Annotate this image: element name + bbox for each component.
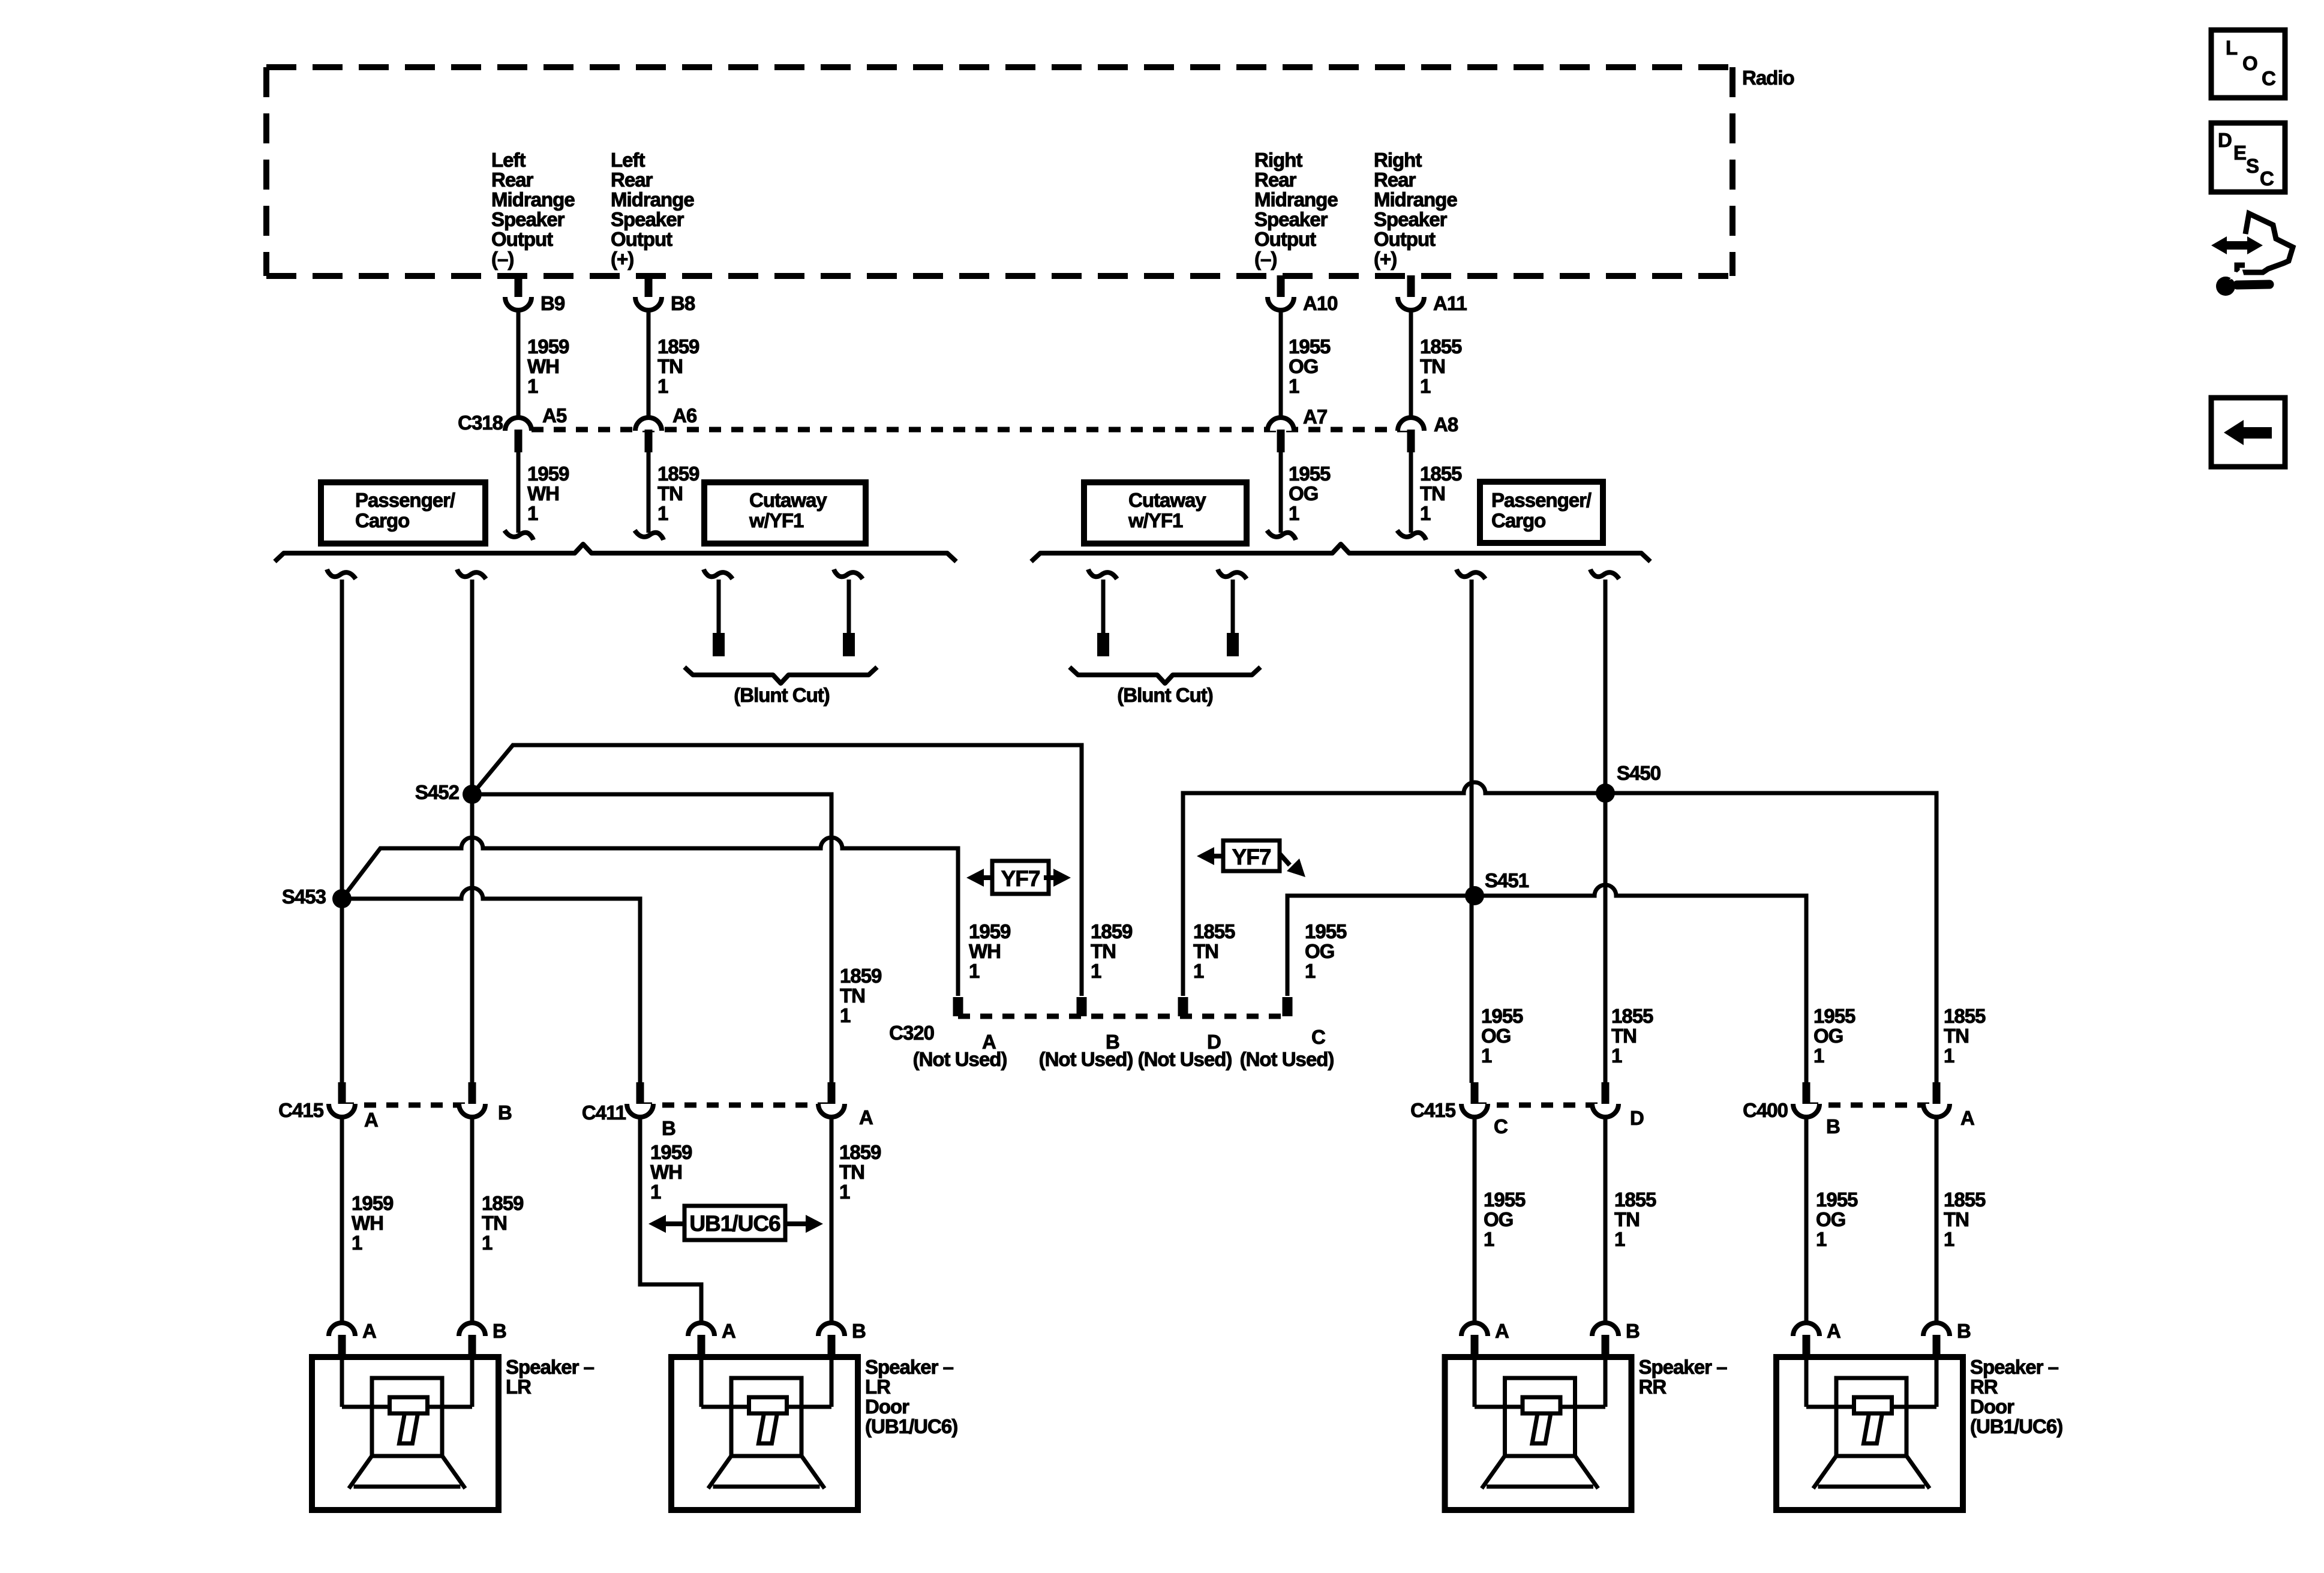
svg-text:L: L — [2226, 37, 2238, 59]
svg-text:TN: TN — [1420, 482, 1445, 505]
svg-text:RR: RR — [1970, 1376, 1998, 1398]
svg-text:B: B — [1626, 1320, 1640, 1342]
svg-text:LR: LR — [506, 1376, 532, 1398]
svg-text:Speaker –: Speaker – — [1970, 1356, 2059, 1378]
svg-text:1855: 1855 — [1944, 1188, 1986, 1211]
svg-text:A: A — [722, 1320, 735, 1342]
svg-text:Speaker: Speaker — [1254, 208, 1328, 230]
svg-text:TN: TN — [1944, 1208, 1969, 1230]
svg-text:A: A — [364, 1109, 378, 1131]
svg-text:1: 1 — [969, 960, 980, 982]
svg-text:(Blunt Cut): (Blunt Cut) — [1117, 684, 1212, 706]
svg-text:1955: 1955 — [1305, 920, 1347, 942]
svg-text:WH: WH — [969, 940, 1001, 962]
svg-text:A5: A5 — [542, 404, 567, 427]
svg-text:C415: C415 — [278, 1099, 324, 1121]
svg-text:1: 1 — [527, 502, 538, 524]
svg-text:1: 1 — [1944, 1044, 1954, 1067]
svg-text:A11: A11 — [1433, 292, 1467, 314]
svg-text:B: B — [662, 1117, 675, 1139]
svg-text:1859: 1859 — [657, 335, 699, 358]
svg-text:1859: 1859 — [1091, 920, 1133, 942]
svg-text:(Not Used): (Not Used) — [913, 1048, 1007, 1070]
svg-text:YF7: YF7 — [1001, 866, 1040, 891]
svg-text:(Blunt Cut): (Blunt Cut) — [734, 684, 829, 706]
svg-text:Speaker: Speaker — [611, 208, 684, 230]
svg-text:D: D — [1630, 1107, 1644, 1129]
svg-text:1955: 1955 — [1481, 1005, 1523, 1027]
svg-text:Output: Output — [1254, 228, 1316, 250]
svg-text:WH: WH — [527, 482, 559, 505]
svg-text:OG: OG — [1289, 355, 1318, 377]
svg-text:OG: OG — [1816, 1208, 1845, 1230]
svg-text:A: A — [859, 1106, 873, 1128]
svg-text:1859: 1859 — [657, 463, 699, 485]
svg-text:Midrange: Midrange — [491, 188, 575, 211]
svg-text:Right: Right — [1254, 149, 1302, 171]
svg-text:D: D — [2218, 129, 2232, 151]
svg-text:1955: 1955 — [1289, 463, 1331, 485]
svg-text:OG: OG — [1481, 1025, 1511, 1047]
svg-text:S450: S450 — [1617, 762, 1661, 784]
svg-text:C: C — [1494, 1115, 1508, 1137]
svg-text:1955: 1955 — [1816, 1188, 1858, 1211]
svg-text:Rear: Rear — [1374, 169, 1416, 191]
svg-text:w/YF1: w/YF1 — [1128, 509, 1183, 532]
svg-text:Output: Output — [491, 228, 553, 250]
svg-text:(+): (+) — [611, 248, 633, 270]
svg-text:TN: TN — [657, 355, 683, 377]
svg-text:Radio: Radio — [1742, 67, 1794, 89]
svg-text:TN: TN — [839, 1161, 864, 1183]
svg-text:C: C — [1311, 1026, 1325, 1048]
svg-text:S: S — [2246, 155, 2259, 177]
svg-text:1: 1 — [840, 1004, 851, 1026]
svg-text:Passenger/: Passenger/ — [1491, 489, 1592, 511]
svg-text:A7: A7 — [1303, 406, 1327, 428]
svg-text:(–): (–) — [1254, 248, 1277, 270]
svg-text:1859: 1859 — [839, 1141, 881, 1163]
svg-text:A8: A8 — [1434, 413, 1458, 436]
svg-text:B: B — [1826, 1115, 1840, 1137]
svg-text:WH: WH — [352, 1212, 383, 1234]
svg-text:Left: Left — [491, 149, 526, 171]
svg-text:(–): (–) — [491, 248, 514, 270]
svg-text:TN: TN — [840, 984, 865, 1007]
svg-text:OG: OG — [1813, 1025, 1843, 1047]
svg-text:1855: 1855 — [1944, 1005, 1986, 1027]
svg-text:TN: TN — [482, 1212, 507, 1234]
svg-text:Speaker –: Speaker – — [1639, 1356, 1728, 1378]
svg-text:WH: WH — [527, 355, 559, 377]
svg-text:1: 1 — [1481, 1044, 1492, 1067]
svg-text:1: 1 — [1193, 960, 1204, 982]
svg-text:A10: A10 — [1303, 292, 1338, 314]
svg-text:Speaker –: Speaker – — [865, 1356, 954, 1378]
svg-text:Output: Output — [611, 228, 672, 250]
svg-text:(UB1/UC6): (UB1/UC6) — [1970, 1415, 2062, 1437]
svg-text:1: 1 — [1816, 1228, 1827, 1250]
svg-text:YF7: YF7 — [1232, 845, 1271, 869]
svg-text:TN: TN — [1614, 1208, 1640, 1230]
svg-text:B: B — [493, 1320, 506, 1342]
svg-text:1955: 1955 — [1484, 1188, 1526, 1211]
svg-text:1855: 1855 — [1420, 463, 1462, 485]
svg-text:B: B — [852, 1320, 866, 1342]
svg-text:1959: 1959 — [352, 1192, 394, 1214]
svg-text:1855: 1855 — [1420, 335, 1462, 358]
svg-text:Cargo: Cargo — [355, 509, 409, 532]
svg-text:Midrange: Midrange — [1254, 188, 1338, 211]
svg-text:1959: 1959 — [527, 335, 569, 358]
svg-text:1: 1 — [527, 375, 538, 397]
svg-text:A: A — [362, 1320, 376, 1342]
svg-text:B9: B9 — [541, 292, 565, 314]
svg-text:1959: 1959 — [650, 1141, 692, 1163]
svg-text:1: 1 — [657, 375, 668, 397]
svg-text:1: 1 — [1420, 375, 1431, 397]
svg-text:1855: 1855 — [1611, 1005, 1653, 1027]
svg-text:WH: WH — [650, 1161, 682, 1183]
svg-text:1: 1 — [1305, 960, 1316, 982]
svg-text:1855: 1855 — [1193, 920, 1235, 942]
svg-text:A: A — [1495, 1320, 1509, 1342]
svg-text:TN: TN — [1420, 355, 1445, 377]
svg-text:Speaker: Speaker — [1374, 208, 1448, 230]
svg-text:O: O — [2242, 52, 2257, 74]
svg-text:1: 1 — [839, 1181, 850, 1203]
svg-text:OG: OG — [1484, 1208, 1513, 1230]
svg-text:Cutaway: Cutaway — [749, 489, 827, 511]
svg-text:1959: 1959 — [527, 463, 569, 485]
svg-text:Midrange: Midrange — [1374, 188, 1457, 211]
svg-text:TN: TN — [1091, 940, 1116, 962]
svg-text:1: 1 — [352, 1232, 362, 1254]
svg-text:1: 1 — [1289, 375, 1299, 397]
svg-text:B: B — [498, 1101, 512, 1124]
svg-text:E: E — [2233, 142, 2246, 164]
svg-text:1: 1 — [1614, 1228, 1625, 1250]
svg-text:TN: TN — [1944, 1025, 1969, 1047]
svg-text:B8: B8 — [671, 292, 695, 314]
svg-text:A6: A6 — [672, 404, 697, 427]
svg-text:1: 1 — [1420, 502, 1431, 524]
svg-text:(Not Used): (Not Used) — [1138, 1048, 1232, 1070]
svg-text:C: C — [2262, 67, 2275, 89]
svg-text:Midrange: Midrange — [611, 188, 694, 211]
svg-text:1955: 1955 — [1813, 1005, 1855, 1027]
svg-text:Speaker: Speaker — [491, 208, 565, 230]
svg-text:C411: C411 — [582, 1101, 626, 1124]
svg-text:w/YF1: w/YF1 — [749, 509, 804, 532]
svg-text:UB1/UC6: UB1/UC6 — [689, 1211, 780, 1236]
svg-text:C400: C400 — [1743, 1099, 1788, 1121]
svg-text:(Not Used): (Not Used) — [1039, 1048, 1133, 1070]
svg-text:Door: Door — [865, 1395, 909, 1418]
svg-text:1859: 1859 — [840, 965, 882, 987]
svg-text:Door: Door — [1970, 1395, 2014, 1418]
svg-text:C415: C415 — [1410, 1099, 1456, 1121]
svg-text:OG: OG — [1305, 940, 1334, 962]
svg-text:S452: S452 — [415, 781, 460, 803]
svg-text:LR: LR — [865, 1376, 891, 1398]
svg-text:1959: 1959 — [969, 920, 1011, 942]
svg-text:1: 1 — [657, 502, 668, 524]
svg-text:Left: Left — [611, 149, 645, 171]
svg-text:C: C — [2260, 167, 2274, 190]
svg-text:1: 1 — [1484, 1228, 1494, 1250]
svg-text:S451: S451 — [1485, 869, 1529, 891]
svg-text:Output: Output — [1374, 228, 1436, 250]
svg-text:C320: C320 — [889, 1022, 934, 1044]
svg-text:RR: RR — [1639, 1376, 1667, 1398]
svg-text:1: 1 — [650, 1181, 661, 1203]
svg-text:1: 1 — [1289, 502, 1299, 524]
svg-text:S453: S453 — [282, 885, 326, 908]
svg-text:1855: 1855 — [1614, 1188, 1656, 1211]
svg-text:Passenger/: Passenger/ — [355, 489, 455, 511]
svg-text:1: 1 — [482, 1232, 493, 1254]
svg-text:1: 1 — [1091, 960, 1101, 982]
svg-text:OG: OG — [1289, 482, 1318, 505]
svg-text:Cargo: Cargo — [1491, 509, 1545, 532]
svg-text:A: A — [1960, 1107, 1974, 1129]
svg-text:(UB1/UC6): (UB1/UC6) — [865, 1415, 957, 1437]
svg-text:Rear: Rear — [611, 169, 653, 191]
svg-text:(+): (+) — [1374, 248, 1397, 270]
svg-text:C318: C318 — [458, 412, 503, 434]
svg-text:Right: Right — [1374, 149, 1422, 171]
svg-text:Rear: Rear — [1254, 169, 1297, 191]
svg-text:Speaker –: Speaker – — [506, 1356, 594, 1378]
svg-text:1: 1 — [1611, 1044, 1622, 1067]
svg-text:1955: 1955 — [1289, 335, 1331, 358]
svg-text:A: A — [1827, 1320, 1840, 1342]
svg-text:TN: TN — [1611, 1025, 1637, 1047]
svg-text:B: B — [1957, 1320, 1971, 1342]
svg-text:1: 1 — [1944, 1228, 1954, 1250]
svg-text:1859: 1859 — [482, 1192, 524, 1214]
svg-text:TN: TN — [1193, 940, 1218, 962]
svg-text:(Not Used): (Not Used) — [1240, 1048, 1334, 1070]
svg-text:Rear: Rear — [491, 169, 534, 191]
svg-text:TN: TN — [657, 482, 683, 505]
svg-text:Cutaway: Cutaway — [1128, 489, 1206, 511]
svg-text:1: 1 — [1813, 1044, 1824, 1067]
